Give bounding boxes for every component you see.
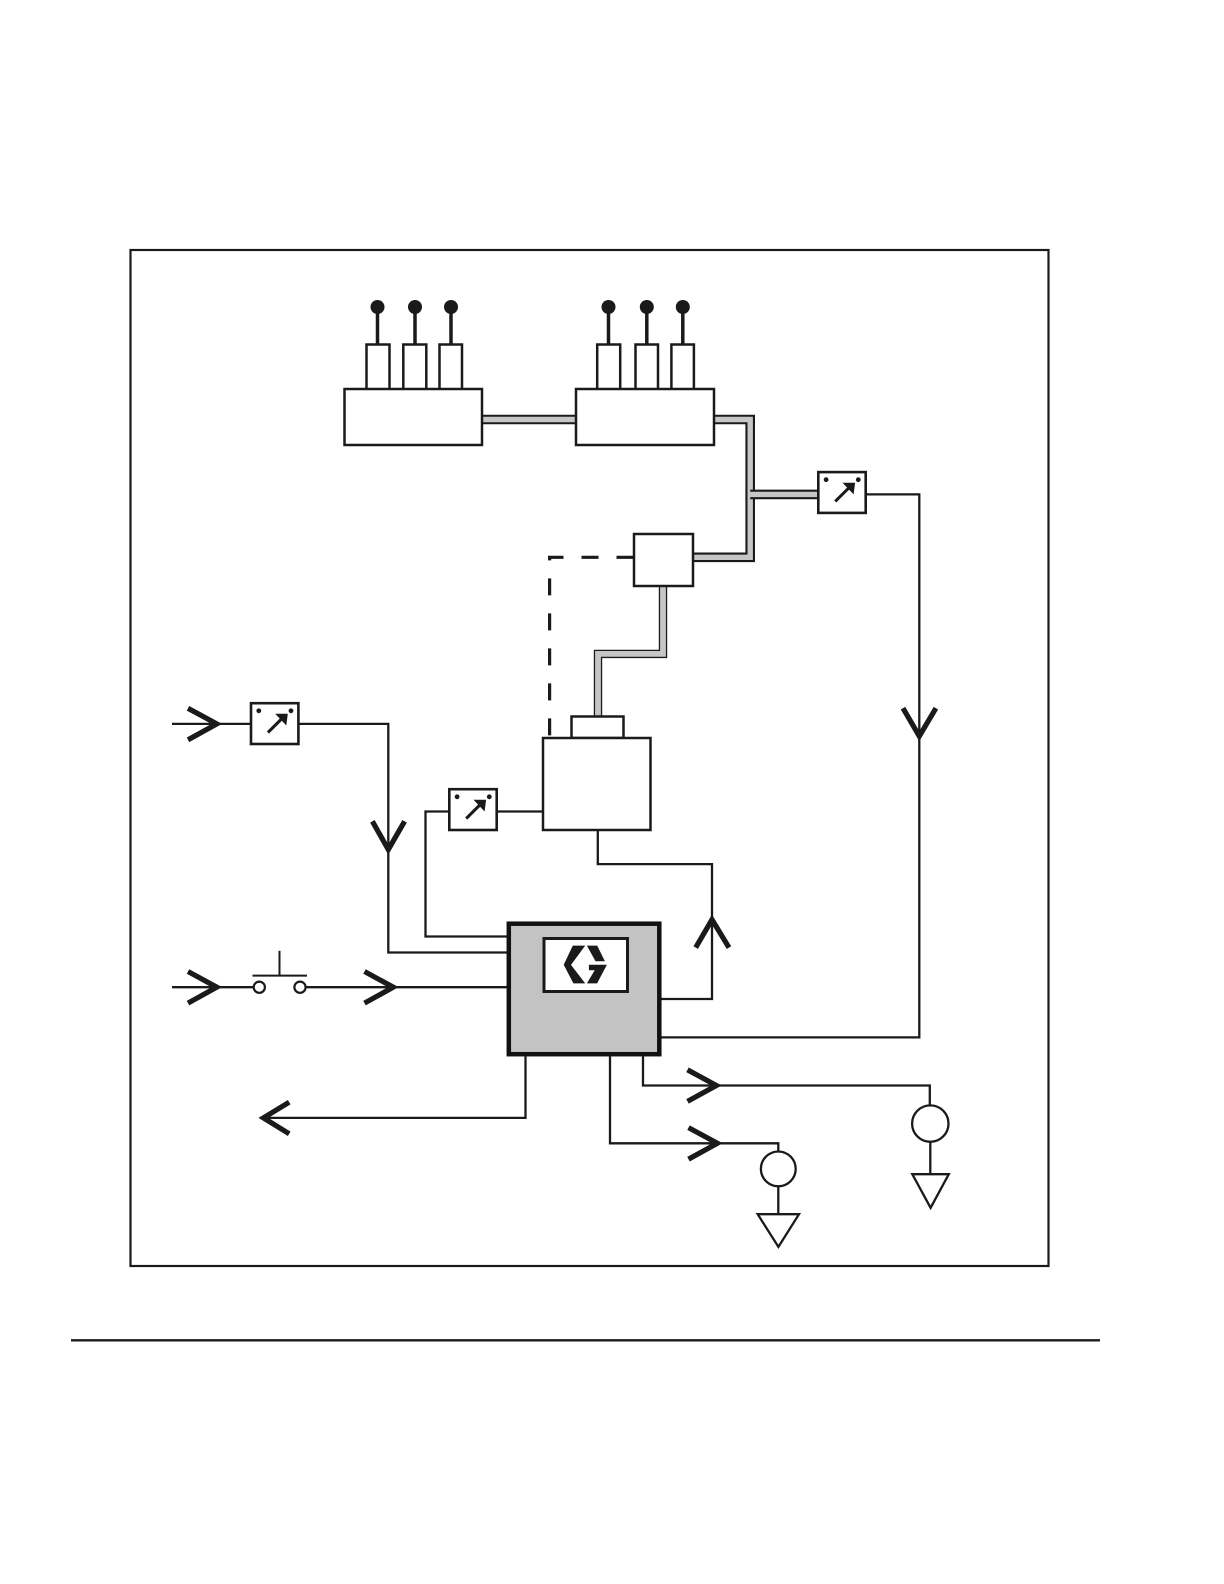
arrow: left chevron at end of left output [263,1102,289,1134]
arrow: chevron on muffler E1 line [689,1128,718,1160]
wire: switch input line left segment [172,986,254,988]
controller logo plate [544,939,628,992]
valve bodies manifold M1 [367,345,463,390]
arrow: chevron on muffler E2 line [688,1070,717,1102]
solenoid box B1 [634,534,693,586]
wire: controller bottom left output going left [264,1057,526,1118]
wire: gray tube manifold M2 right, down, left into solenoid box [693,420,750,558]
wire: gauge G3 output right, down, left into controller right side [662,494,920,1037]
wire: gray tube solenoid box down to pump air inlet [598,586,663,717]
wire: regulator R2 left, down, right into controller [426,812,508,937]
wire: switch line right segment into controller [306,986,507,988]
valve bodies manifold M2 [597,345,694,390]
manifold M1 body [345,389,483,445]
valve knobs manifold M2 [602,300,690,314]
controller U1 gray box [509,924,660,1054]
wire: controller bottom output to muffler E2 [643,1057,930,1106]
pump body P1 [543,738,651,830]
footer horizontal rule [71,1339,1100,1341]
arrow: chevron on switch line before controller [365,972,394,1004]
switch S1 contacts [253,951,308,993]
gauge G2 middle regulator [449,789,496,830]
wire: regulator R1 output right, down, right into controller [298,724,507,953]
arrow: switch line entry chevron [188,972,217,1004]
arrow: up chevron on pump return line [696,920,729,948]
muffler E1 stem [777,1186,779,1214]
wire: regulator R2 output to pump [496,810,543,812]
wire: controller bottom output to muffler E1 [610,1057,778,1152]
gauge G1 top-left regulator [251,703,298,744]
arrow: down chevron on R1 drop line [372,821,404,849]
Graco logo G hexagon [564,946,607,984]
wire: air inlet line to regulator R1 [172,723,251,725]
muffler E1 circle [761,1152,796,1187]
outer border frame [131,250,1049,1266]
arrow: down chevron on G3 drop line [903,708,936,736]
valve knobs manifold M1 [371,300,459,314]
arrow: air inlet chevron [188,708,217,740]
pump air motor cap [572,717,624,739]
valve stems manifold M2 [609,310,683,345]
muffler E2 circle [912,1105,948,1141]
muffler E1 exhaust triangle [758,1214,799,1247]
manifold M2 body [576,389,714,445]
wire: gray tube manifold M1 to manifold M2 (black outline underlay) [482,415,576,425]
wire: pump fluid outlet down, right, down, left into controller [598,830,712,999]
wire: dashed pilot line solenoid box to pump [550,557,634,736]
wire: gray tube branch junction to gauge G3 [749,490,819,500]
muffler E2 stem [929,1142,931,1174]
muffler E2 exhaust triangle [912,1174,949,1208]
gauge G3 top-right regulator [818,472,865,513]
valve stems manifold M1 [378,310,452,345]
